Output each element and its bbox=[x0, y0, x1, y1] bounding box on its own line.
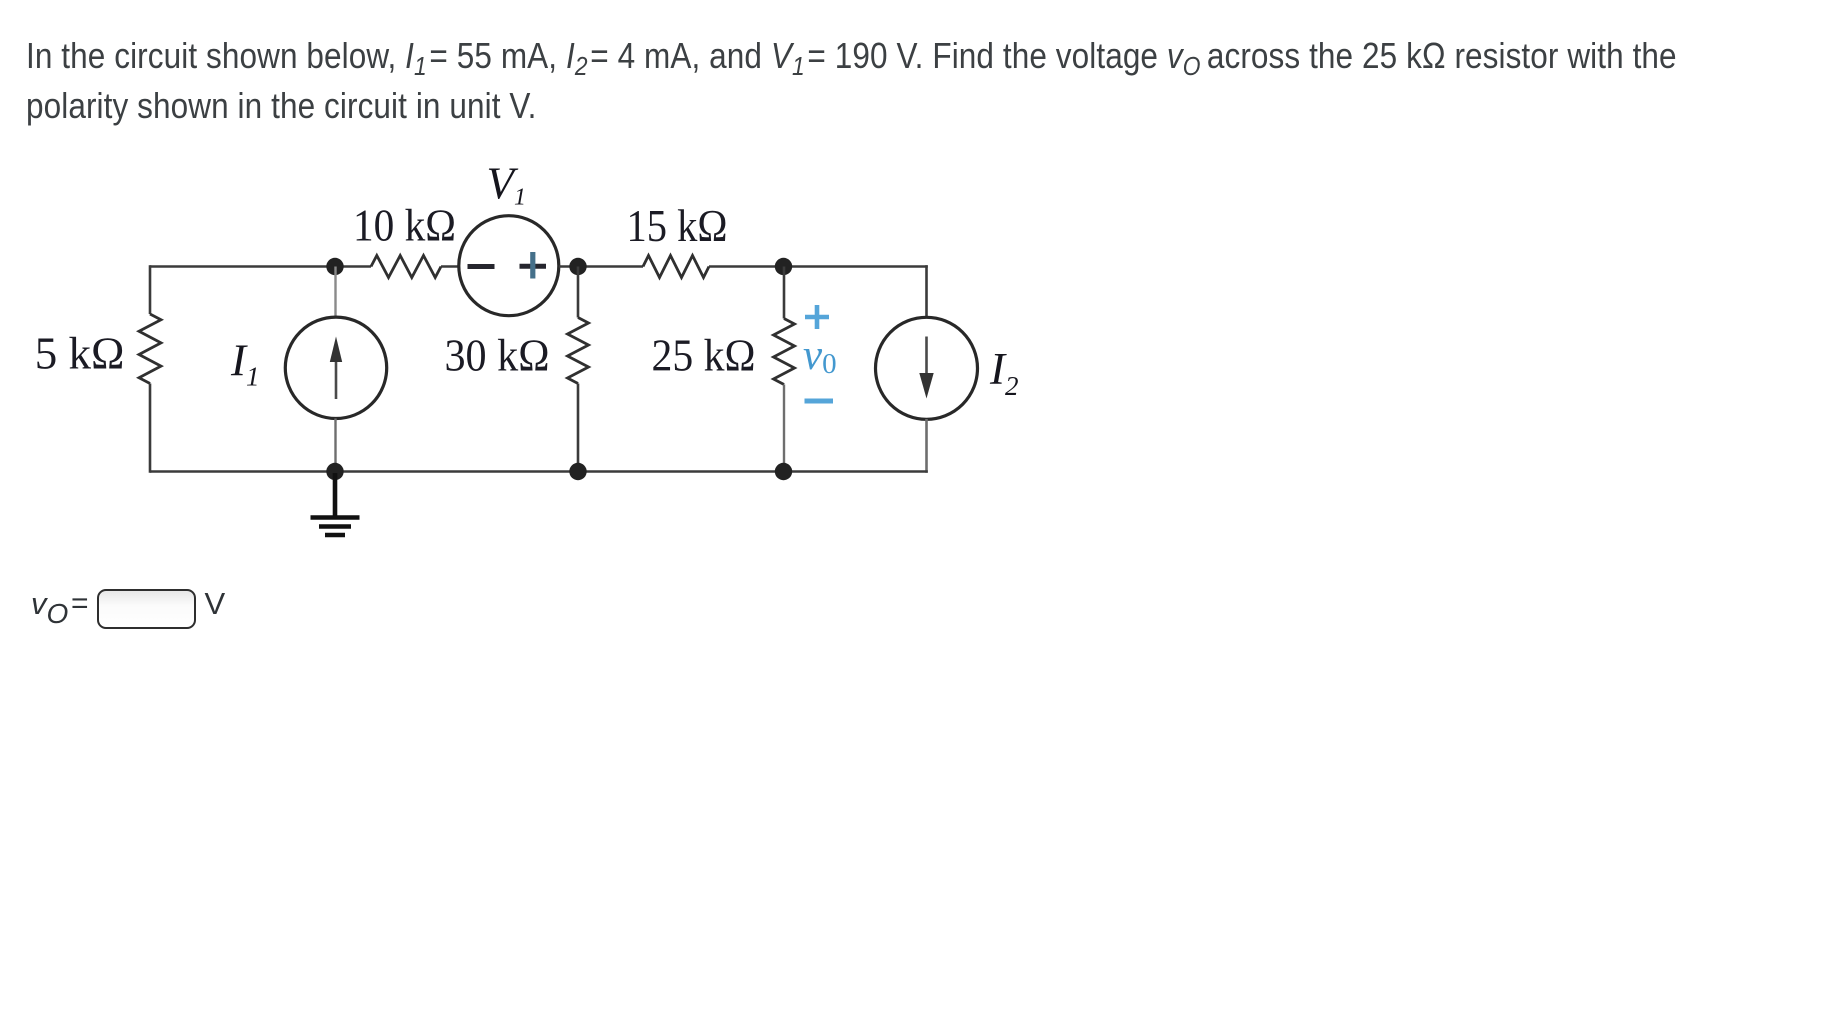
resistor 10 kOhm zigzag bbox=[371, 256, 441, 278]
current source I1 circle bbox=[285, 317, 386, 418]
svg-text:V1: V1 bbox=[487, 159, 527, 211]
resistor 30 kOhm zigzag bbox=[568, 318, 589, 384]
wire I1 to bottom node bbox=[334, 419, 336, 472]
node A top dot bbox=[326, 258, 343, 275]
I2 arrow down bbox=[919, 337, 933, 399]
svg-text:I1: I1 bbox=[230, 336, 260, 392]
V1 minus sign bbox=[468, 264, 495, 269]
voltage source V1 circle bbox=[459, 216, 559, 316]
svg-text:30 kΩ: 30 kΩ bbox=[445, 331, 550, 381]
answer row bbox=[31, 586, 68, 622]
wire node B to 30k bbox=[577, 267, 580, 318]
v0 minus polarity (blue) bbox=[805, 399, 834, 404]
node A bottom dot bbox=[326, 463, 343, 480]
I1 arrow up bbox=[330, 337, 342, 400]
wire V1 to 15k through node B bbox=[559, 265, 643, 268]
svg-text:v0: v0 bbox=[803, 332, 837, 380]
svg-text:15 kΩ: 15 kΩ bbox=[627, 201, 728, 251]
wire node C to 25k bbox=[783, 267, 786, 319]
resistor 15 kOhm zigzag bbox=[643, 256, 709, 278]
svg-text:25 kΩ: 25 kΩ bbox=[652, 331, 756, 381]
wire left vertical upper bbox=[149, 265, 152, 314]
V1 plus sign bbox=[520, 252, 547, 279]
resistor 25 kOhm zigzag bbox=[774, 319, 795, 385]
resistor 5 kOhm zigzag bbox=[139, 314, 161, 384]
wire 15k to top-right corner bbox=[709, 265, 928, 268]
wire 25k to bottom node bbox=[783, 385, 785, 472]
v0 plus polarity (blue) bbox=[805, 305, 829, 329]
wire right vertical lower bbox=[925, 419, 928, 473]
svg-text:I2: I2 bbox=[989, 344, 1019, 401]
wire 30k to bottom node bbox=[577, 384, 580, 472]
ground bbox=[311, 473, 360, 535]
node B top dot bbox=[569, 258, 586, 275]
wire right vertical upper bbox=[925, 265, 928, 318]
node C top dot bbox=[775, 258, 792, 275]
wire node A to I1 bbox=[334, 267, 336, 319]
wire top-left horizontal bbox=[150, 265, 371, 268]
node C bottom dot bbox=[775, 463, 792, 480]
svg-text:5 kΩ: 5 kΩ bbox=[35, 329, 125, 379]
node B bottom dot bbox=[569, 463, 586, 480]
wire left vertical lower bbox=[149, 384, 152, 473]
wire bottom horizontal bbox=[150, 470, 928, 473]
current source I2 circle bbox=[876, 317, 978, 419]
wire 10k to V1 bbox=[441, 265, 460, 268]
svg-text:10 kΩ: 10 kΩ bbox=[353, 201, 456, 251]
